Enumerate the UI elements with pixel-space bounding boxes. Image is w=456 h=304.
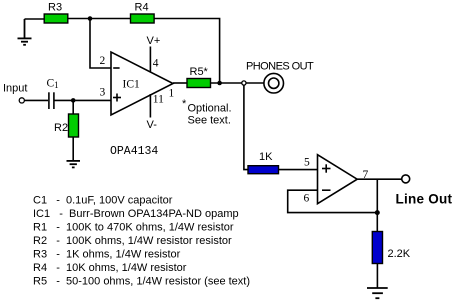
svg-text:*: * <box>182 98 187 110</box>
ground top-left <box>18 19 32 45</box>
svg-text:R2: R2 <box>54 122 68 134</box>
svg-text:R3 - 1K ohms, 1/4W resistor: R3 - 1K ohms, 1/4W resistor <box>33 249 181 261</box>
svg-text:6: 6 <box>304 193 310 205</box>
svg-text:C1 - 0.1uF, 100V capacitor: C1 - 0.1uF, 100V capacitor <box>33 195 173 207</box>
svg-text:C1: C1 <box>47 78 59 91</box>
resistor R2 <box>54 114 79 137</box>
minus sign pin 2 <box>113 67 119 69</box>
svg-text:R5*: R5* <box>190 66 209 78</box>
svg-text:R1 - 100K to 470K ohms, 1/4: R1 - 100K to 470K ohms, 1/4W resistor <box>33 222 234 234</box>
wire input to C1 <box>24 99 48 101</box>
svg-text:Line Out: Line Out <box>396 192 453 207</box>
svg-text:5: 5 <box>304 157 310 169</box>
svg-text:R3: R3 <box>48 2 62 14</box>
svg-text:11: 11 <box>153 94 164 106</box>
plus sign pin 3 <box>113 94 121 102</box>
svg-text:IC1: IC1 <box>123 79 141 91</box>
wire C1 to pin 3 <box>54 99 111 101</box>
plus sign pin 5 <box>322 164 331 172</box>
wire ground to R3 <box>25 18 45 20</box>
feedback wire pin6 loop <box>288 190 378 212</box>
svg-text:R4: R4 <box>135 2 149 14</box>
input terminal <box>3 83 27 104</box>
resistor R4 <box>131 2 155 24</box>
wire output down to junction and 2.2K <box>376 179 378 231</box>
svg-text:OPA4134: OPA4134 <box>110 145 158 158</box>
ground bottom-right <box>367 288 388 298</box>
wire R3 to R4 <box>68 18 131 20</box>
svg-text:Input: Input <box>3 83 27 95</box>
wire pin1 to R5 <box>173 82 187 84</box>
node junction R5/feedback <box>217 81 222 86</box>
svg-text:R4 - 10K ohms, 1/4W resisto: R4 - 10K ohms, 1/4W resistor <box>33 262 187 274</box>
pin 4 wire <box>149 47 151 72</box>
node open junction phones/1K <box>242 81 246 85</box>
wire pin 7 to line out <box>357 178 401 180</box>
wire R5 to phones node <box>211 82 242 84</box>
wire R2 to ground <box>72 137 74 161</box>
svg-text:2.2K: 2.2K <box>388 248 411 260</box>
svg-text:R2 - 100K ohms, 1/4W resist: R2 - 100K ohms, 1/4W resistor resistor <box>33 235 232 247</box>
wire node to phones jack <box>246 82 264 84</box>
svg-text:PHONES OUT: PHONES OUT <box>246 61 314 73</box>
pin 11 wire <box>149 94 151 118</box>
capacitor C1 <box>47 78 59 110</box>
node junction C1/R2 <box>71 98 76 103</box>
note optional text <box>182 98 232 127</box>
resistor R5 <box>187 66 211 88</box>
svg-text:IC1 - Burr-Brown OPA134PA-N: IC1 - Burr-Brown OPA134PA-ND opamp <box>33 208 239 220</box>
wire 1K to pin 5 <box>279 169 318 171</box>
node junction feedback/2.2K <box>375 210 380 215</box>
svg-text:V-: V- <box>147 119 158 131</box>
line out terminal <box>402 175 410 183</box>
resistor 2.2K <box>372 232 410 264</box>
ground below R2 <box>67 161 81 168</box>
svg-text:Optional.: Optional. <box>188 103 232 115</box>
svg-text:1K: 1K <box>259 151 273 163</box>
wire junction to R2 <box>72 100 74 114</box>
parts list text <box>33 195 250 288</box>
svg-text:3: 3 <box>100 87 106 99</box>
phones out jack <box>246 61 314 93</box>
svg-text:V+: V+ <box>147 35 161 47</box>
resistor 1K <box>248 151 279 174</box>
svg-text:2: 2 <box>100 55 106 67</box>
op-amp U2 triangle <box>318 155 358 204</box>
wire phones node down to 1K <box>244 85 248 170</box>
svg-text:See text.: See text. <box>188 115 231 127</box>
node junction R3/R4/pin2 <box>88 16 93 21</box>
svg-text:4: 4 <box>153 58 159 70</box>
op-amp U1 triangle <box>111 52 173 115</box>
wire R4 to output node (feedback) <box>154 19 220 84</box>
resistor R3 <box>44 2 68 24</box>
minus sign pin 6 <box>322 189 331 191</box>
wire 2.2K to ground <box>376 264 378 289</box>
wire junction down to pin 2 <box>90 19 111 69</box>
svg-text:1: 1 <box>169 88 175 100</box>
svg-text:R5 - 50-100 ohms, 1/4W resi: R5 - 50-100 ohms, 1/4W resistor (see tex… <box>33 276 250 288</box>
